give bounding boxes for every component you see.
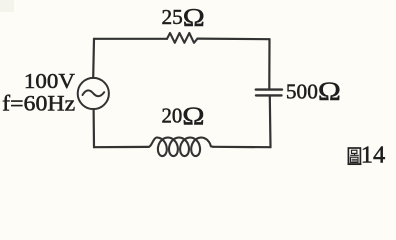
wire left vertical lower segment xyxy=(92,109,95,147)
inductor L 20ohm coil xyxy=(149,138,214,157)
svg-text:14: 14 xyxy=(361,142,386,169)
svg-text:500Ω: 500Ω xyxy=(286,77,341,106)
wire bottom-right horizontal segment xyxy=(213,146,270,149)
CJK glyph for figure (tu) drawn manually xyxy=(348,148,362,164)
svg-text:20Ω: 20Ω xyxy=(162,103,205,130)
svg-text:25Ω: 25Ω xyxy=(162,3,205,32)
AC source V1 circle xyxy=(78,78,109,109)
wire bottom-left horizontal segment xyxy=(94,146,149,149)
wire right vertical lower segment xyxy=(269,96,272,147)
capacitor C 500ohm top plate xyxy=(256,88,282,90)
wire top-right horizontal segment xyxy=(198,37,270,40)
faint scan artifact top-left xyxy=(0,0,14,12)
svg-text:f=60Hz: f=60Hz xyxy=(2,91,75,116)
svg-text:100V: 100V xyxy=(24,69,76,93)
resistor R 25ohm zigzag xyxy=(167,33,198,43)
capacitor C 500ohm bottom plate xyxy=(256,94,282,96)
wire right vertical upper segment xyxy=(268,39,270,89)
AC source sine wave xyxy=(83,90,105,96)
wire left vertical upper segment xyxy=(92,39,95,78)
wire top-left horizontal segment xyxy=(94,38,167,40)
